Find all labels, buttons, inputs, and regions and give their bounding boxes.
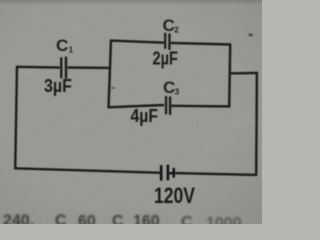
- wire: inner box top (right of C2): [170, 43, 231, 45]
- label C1: [56, 36, 74, 55]
- wire: top-left horizontal (left of C1): [16, 66, 60, 69]
- wire: inner box right edge: [229, 44, 230, 108]
- label C3: [163, 78, 180, 97]
- wire: inner box left edge: [109, 40, 112, 108]
- label C2: [163, 16, 180, 35]
- wire: outer left edge: [15, 66, 17, 170]
- paper background: [0, 0, 262, 224]
- wire: connecting wire from inner box to outer right edge: [229, 72, 258, 75]
- wire: outer bottom (right of battery): [175, 173, 257, 175]
- wire: inner box top (left of C2): [110, 41, 164, 43]
- capacitor C3: [165, 96, 171, 115]
- wire: outer bottom (left of battery): [14, 168, 160, 173]
- wire: inner box bottom (left of C3): [108, 105, 165, 107]
- capacitor C2: [164, 33, 171, 50]
- wire: top-left horizontal (right of C1 to inner box): [67, 66, 110, 69]
- wire: outer right edge: [255, 72, 258, 175]
- stray mark (dot near inner box): [111, 87, 115, 89]
- cropped caption text at bottom edge: [3, 213, 242, 233]
- battery B1 (120V source): [160, 165, 175, 181]
- stray mark (dash, top right): [249, 34, 253, 37]
- film grain: [0, 0, 262, 224]
- wire: inner box bottom (right of C3): [171, 105, 230, 108]
- capacitor C1: [60, 57, 67, 79]
